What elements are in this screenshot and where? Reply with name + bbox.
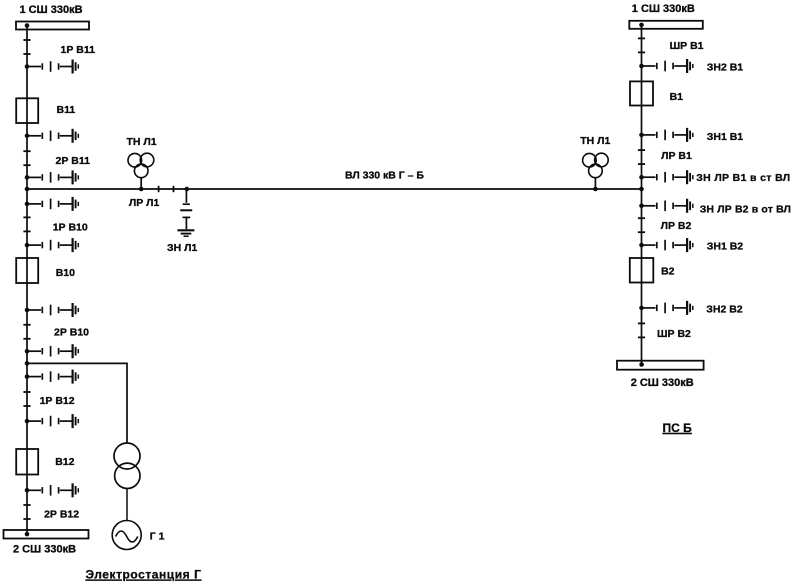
breaker В11	[16, 98, 38, 123]
svg-text:1 СШ 330кВ: 1 СШ 330кВ	[632, 3, 695, 15]
busbar 1 СШ 330кВ (right)	[629, 21, 703, 29]
node ТН Л1 stem on line (right)	[593, 187, 598, 192]
node on busbar 1 (left)	[25, 23, 30, 28]
voltage transformer ТН Л1 (right)	[583, 153, 609, 189]
svg-text:ЗН2 В2: ЗН2 В2	[706, 303, 743, 315]
busbar 1 СШ 330кВ (left)	[16, 22, 89, 30]
svg-text:В10: В10	[56, 267, 75, 279]
earthing switch ЗН ЛР В1	[639, 170, 693, 184]
node generator branch tee	[25, 361, 30, 366]
earthing switch below В12	[25, 483, 79, 497]
svg-text:2Р В10: 2Р В10	[54, 326, 89, 338]
earthing switch ЗН2 В2	[639, 301, 693, 315]
svg-text:В1: В1	[670, 91, 684, 103]
disconnector ШР В2	[638, 323, 645, 337]
node on busbar 2 (left)	[25, 532, 30, 537]
svg-text:Электростанция Г: Электростанция Г	[86, 568, 202, 582]
voltage transformer ТН Л1 (left)	[128, 153, 154, 189]
svg-text:ЗН Л1: ЗН Л1	[167, 242, 197, 254]
transformer T1 winding 1	[114, 443, 140, 469]
wire transmission line ВЛ 330 кВ Г-Б	[27, 188, 642, 190]
disconnector 1Р В12	[23, 392, 30, 406]
svg-text:ПС Б: ПС Б	[663, 421, 693, 435]
svg-text:Г 1: Г 1	[150, 530, 165, 542]
wire right column (busbar 1 to busbar 2)	[641, 25, 643, 365]
earthing switch below В10	[25, 303, 79, 317]
node on busbar 1 (right)	[639, 23, 644, 28]
earthing switch ЗН1 В2	[639, 238, 693, 252]
svg-text:ЗН ЛР В2 в от ВЛ: ЗН ЛР В2 в от ВЛ	[700, 203, 791, 215]
svg-text:ВЛ 330 кВ Г – Б: ВЛ 330 кВ Г – Б	[345, 170, 424, 182]
busbar 2 СШ 330кВ (right)	[617, 361, 704, 370]
svg-text:ЗН ЛР В1 в ст ВЛ: ЗН ЛР В1 в ст ВЛ	[696, 172, 790, 184]
svg-text:В2: В2	[661, 266, 675, 278]
svg-text:2Р В11: 2Р В11	[56, 155, 91, 167]
wire to generator transformer	[27, 363, 127, 443]
busbar 2 СШ 330кВ (left)	[4, 530, 89, 539]
disconnector 1Р В11	[23, 40, 30, 54]
earthing switch ЗН1 В1	[639, 128, 693, 142]
breaker В1	[630, 81, 653, 105]
earthing switch below generator tee	[25, 370, 79, 384]
earthing switch ЗН Л1	[177, 189, 194, 236]
generator Г1	[112, 521, 141, 550]
earthing switch of 2Р В11	[25, 170, 79, 184]
svg-text:ЛР В1: ЛР В1	[661, 150, 692, 162]
svg-text:2 СШ 330кВ: 2 СШ 330кВ	[631, 377, 694, 389]
svg-text:1Р В11: 1Р В11	[61, 44, 96, 56]
node junction of line ВЛ at right column	[639, 187, 644, 192]
wire left column (busbar 1 to busbar 2)	[26, 26, 28, 535]
svg-text:2Р В12: 2Р В12	[44, 509, 79, 521]
svg-text:В11: В11	[57, 104, 76, 116]
svg-text:1Р В12: 1Р В12	[40, 395, 75, 407]
svg-text:ЗН1 В2: ЗН1 В2	[707, 240, 744, 252]
disconnector 1Р В10	[23, 217, 30, 231]
disconnector ЛР В1	[638, 150, 645, 164]
svg-text:ШР В1: ШР В1	[670, 40, 704, 52]
earthing switch ЗН2 В1	[639, 59, 693, 73]
svg-text:ЗН1 В1: ЗН1 В1	[707, 131, 744, 143]
transformer T1 winding 2	[115, 463, 140, 488]
earthing switch below В11	[25, 129, 79, 143]
earthing switch ЗН ЛР В2	[639, 199, 693, 213]
svg-text:1Р В10: 1Р В10	[53, 221, 88, 233]
disconnector 2Р В12	[23, 505, 30, 519]
node junction of line ВЛ at left column	[25, 187, 30, 192]
disconnector ЛР В2	[638, 218, 645, 232]
svg-text:ТН Л1: ТН Л1	[580, 135, 610, 147]
node ТН Л1 stem on line (left)	[139, 187, 144, 192]
earthing switch below line junction (left)	[25, 197, 79, 211]
svg-text:ЛР Л1: ЛР Л1	[129, 197, 160, 209]
svg-text:В12: В12	[55, 456, 74, 468]
svg-text:1 СШ 330кВ: 1 СШ 330кВ	[20, 4, 83, 16]
disconnector ЛР Л1	[159, 186, 174, 192]
breaker В10	[16, 258, 38, 283]
earthing switch of 1Р В10	[25, 238, 79, 252]
disconnector 2Р В10	[23, 325, 30, 339]
svg-text:ШР В2: ШР В2	[657, 328, 691, 340]
disconnector ШР В1	[638, 38, 645, 52]
earthing switch of 2Р В10	[25, 344, 79, 358]
breaker В2	[630, 258, 654, 283]
earthing switch of 1Р В12	[25, 414, 79, 428]
disconnector 2Р В11	[23, 151, 30, 165]
earthing switch of 1Р В11	[25, 60, 79, 74]
svg-text:2 СШ 330кВ: 2 СШ 330кВ	[13, 543, 76, 555]
wire transformer to generator	[126, 489, 128, 522]
breaker В12	[16, 449, 38, 475]
svg-text:ТН Л1: ТН Л1	[127, 136, 157, 148]
svg-text:ЛР В2: ЛР В2	[661, 220, 692, 232]
node ЗН Л1 tee	[185, 187, 190, 192]
node on busbar 2 (right)	[639, 362, 644, 367]
svg-text:ЗН2 В1: ЗН2 В1	[707, 61, 744, 73]
